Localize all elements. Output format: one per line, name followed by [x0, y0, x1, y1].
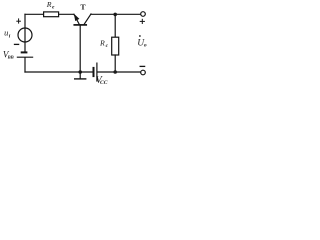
label T [80, 2, 86, 11]
label VCC [96, 75, 108, 86]
minus sign of source [15, 43, 19, 45]
ground [75, 72, 86, 79]
minus sign above bottom terminal [140, 65, 144, 67]
label Uo output voltage [137, 38, 147, 48]
resistor Rc [112, 37, 119, 55]
battery VCC [94, 63, 97, 81]
svg-text:R: R [46, 0, 52, 9]
label Uo phasor dot [139, 35, 141, 37]
label Re [46, 0, 55, 10]
svg-text:CC: CC [100, 80, 108, 86]
wire left column top [24, 14, 26, 28]
wire base lead down [79, 26, 81, 72]
svg-text:BB: BB [7, 55, 14, 60]
terminal output minus [141, 70, 146, 75]
node Rc-VCC junction [113, 70, 117, 74]
svg-text:o: o [144, 43, 147, 49]
wire top rail left (source to Re) [25, 13, 44, 15]
plus sign of output [140, 19, 144, 23]
wire source to VBB [24, 42, 26, 52]
wire Re to emitter [59, 13, 74, 15]
svg-text:T: T [80, 2, 86, 11]
label VBB [3, 49, 14, 59]
terminal output plus [141, 12, 146, 17]
node emitter-ground junction [78, 70, 82, 74]
wire top rail right (collector to + terminal) [91, 13, 140, 15]
node collector junction [113, 13, 117, 17]
source ui [18, 28, 32, 42]
resistor Re [44, 12, 59, 17]
wire bottom rail right [98, 71, 141, 73]
wire VBB to bottom rail [24, 58, 26, 72]
label ui [4, 28, 11, 40]
label Rc [99, 39, 109, 49]
battery VBB [17, 52, 32, 57]
wire bottom rail left [25, 71, 93, 73]
transistor T [74, 14, 91, 25]
plus sign of source [17, 19, 21, 23]
wire Rc bottom lead [114, 55, 116, 72]
svg-text:R: R [99, 39, 105, 48]
wire Rc top lead [114, 14, 116, 37]
